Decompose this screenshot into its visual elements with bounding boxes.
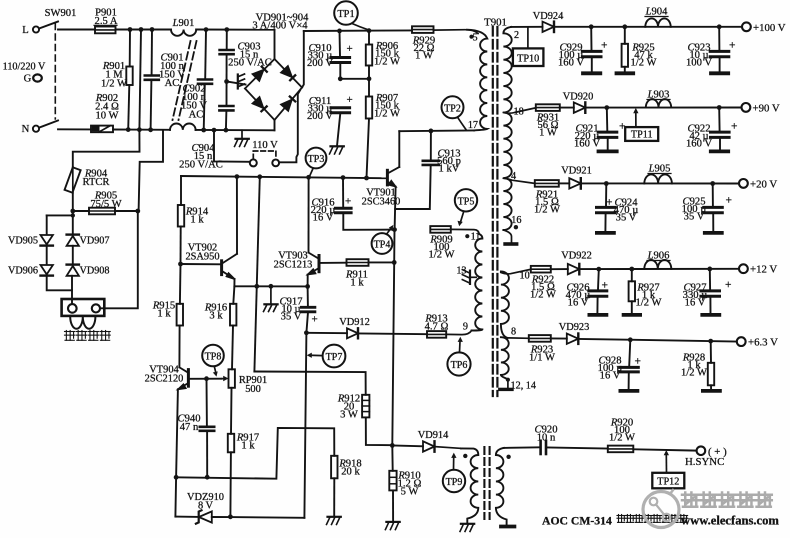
wire bus-to-R912 vertical xyxy=(254,372,365,395)
capacitor C921 label xyxy=(574,124,600,150)
label 110 V xyxy=(252,140,278,151)
terminal N contact xyxy=(33,126,39,132)
node ebus-x257 xyxy=(254,284,259,289)
svg-text:10 W: 10 W xyxy=(95,111,118,122)
switch SW901 gang link (dashed) xyxy=(54,24,56,120)
capacitor C924 xyxy=(597,207,616,212)
wire C928 bottom xyxy=(628,372,630,389)
wire C913 bottom xyxy=(395,165,431,209)
svg-text:N: N xyxy=(22,124,30,135)
plus C917 xyxy=(312,314,318,326)
terminal N xyxy=(22,124,30,135)
wire zener right xyxy=(212,516,231,518)
wire C916 bottom xyxy=(343,213,394,230)
wire VT903 emitter xyxy=(307,275,309,287)
capacitor C913 label xyxy=(437,149,461,175)
svg-text:TP9: TP9 xyxy=(446,477,463,488)
svg-text:VD912: VD912 xyxy=(339,317,370,328)
diode VD908 label xyxy=(80,266,110,277)
node C926 xyxy=(596,267,601,272)
svg-text:+: + xyxy=(635,356,642,368)
transistor VT903 label xyxy=(274,251,313,271)
wire R917 to zener wire xyxy=(229,452,232,517)
svg-text:1/2 W: 1/2 W xyxy=(609,433,635,444)
svg-text:VD921: VD921 xyxy=(561,166,592,177)
diode VD912 xyxy=(347,328,358,338)
inductor L901 bottom coil xyxy=(170,123,196,129)
resistor R920 label xyxy=(609,418,635,444)
node bus-R907 xyxy=(364,176,369,181)
svg-text:1/1 W: 1/1 W xyxy=(529,353,555,364)
transformer T902 core (dashed) xyxy=(484,447,489,519)
bridge edge bottom-left xyxy=(245,89,275,121)
wire C921 top xyxy=(606,108,609,131)
wire R916 top xyxy=(233,286,234,304)
wire C926 bottom xyxy=(596,297,598,313)
wire control bus xyxy=(181,176,387,178)
resistor R921 xyxy=(535,180,559,187)
wire C924 top xyxy=(605,184,607,207)
svg-text:+: + xyxy=(345,196,351,208)
resistor R929 xyxy=(412,26,434,33)
capacitor C922 label xyxy=(686,124,712,150)
node C921 xyxy=(604,105,609,110)
node R911-emitterline xyxy=(392,260,397,265)
capacitor C901 xyxy=(145,76,159,80)
wire VD908 to degauss box xyxy=(71,276,73,304)
svg-text:+12 V: +12 V xyxy=(750,264,777,276)
ground bar R928 xyxy=(703,389,720,393)
diode VD924 label xyxy=(533,11,564,22)
ground bar C928 xyxy=(620,389,637,393)
diode VD921 label xyxy=(561,166,592,177)
pin dot 16 xyxy=(514,225,518,229)
svg-text:L905: L905 xyxy=(648,164,671,175)
svg-text:2SA950: 2SA950 xyxy=(185,252,219,263)
plus C929 xyxy=(601,40,608,52)
resistor R921 label xyxy=(534,190,560,216)
capacitor C904 label xyxy=(179,143,223,171)
T901 secondary upper winding xyxy=(503,27,511,230)
capacitor C929 label xyxy=(558,43,584,69)
capacitor C923 label xyxy=(686,43,712,69)
pin 8 tap wire xyxy=(508,337,529,339)
wire C923 top xyxy=(718,27,720,50)
test point TP7 xyxy=(323,345,346,368)
inductor L904 xyxy=(645,18,670,26)
resistor R913 xyxy=(427,331,446,338)
diode VD904 (bridge bottom-right) xyxy=(281,97,295,111)
svg-text:VD924: VD924 xyxy=(533,11,564,22)
node top-R901 xyxy=(128,27,133,32)
test point TP11 box xyxy=(625,127,658,141)
wire R929 to pin5 xyxy=(434,30,479,34)
node ebus-gnd xyxy=(269,284,274,289)
wire R901 vertical xyxy=(128,30,130,131)
node bot-C903 xyxy=(224,128,229,133)
wire bridge top corner xyxy=(274,30,276,59)
svg-text:+: + xyxy=(726,195,733,207)
label 110/220 V xyxy=(3,62,46,73)
ground bar C925 xyxy=(705,231,722,235)
fuse P901 xyxy=(95,27,116,34)
wire C940 bottom xyxy=(206,431,208,477)
test point TP1 stub xyxy=(352,24,368,30)
wire VD914 left xyxy=(392,444,423,447)
resistor R928 label xyxy=(681,353,707,379)
svg-text:TP2: TP2 xyxy=(444,103,461,114)
wire C911 bottom xyxy=(337,113,340,146)
T901 secondary lower winding xyxy=(501,272,509,380)
degaussing coil box xyxy=(62,299,105,316)
resistor R918 xyxy=(331,456,337,479)
capacitor C902 xyxy=(198,80,212,84)
terminal +12V xyxy=(739,264,748,273)
wire R915 to VT904 collector xyxy=(178,326,180,368)
node VT902 base xyxy=(178,262,183,267)
wire C910/R906 link xyxy=(340,78,369,80)
wire C910 top xyxy=(339,31,342,56)
wire VD905-VD906 xyxy=(46,247,48,264)
svg-text:16 V: 16 V xyxy=(313,213,334,224)
resistor R912 label xyxy=(337,394,360,421)
jumper link (dashed) xyxy=(253,151,276,159)
svg-text:VD905: VD905 xyxy=(8,236,38,247)
wire emitter line down xyxy=(393,230,395,263)
wire VT904 emitter to zener xyxy=(174,477,177,516)
terminal G contact xyxy=(33,74,42,81)
wire C910 bottom xyxy=(339,63,341,79)
wire 110V feed xyxy=(214,130,250,162)
resistor R906 xyxy=(366,45,372,66)
jumper contact right xyxy=(272,160,279,167)
diode VD902 (bridge top-right) xyxy=(281,66,295,80)
svg-text:G: G xyxy=(24,74,32,85)
test point TP7 stub xyxy=(307,353,323,358)
label +6.3 V xyxy=(748,337,778,349)
capacitor C940 label xyxy=(178,414,201,434)
capacitor C925 label xyxy=(682,197,707,223)
svg-text:200 V: 200 V xyxy=(307,58,333,69)
wire C902 top xyxy=(204,30,207,79)
svg-text:+: + xyxy=(312,314,318,326)
svg-text:+100 V: +100 V xyxy=(753,22,786,34)
terminal H.SYNC xyxy=(697,446,706,455)
bridge edge bottom-right xyxy=(275,88,303,121)
svg-text:1 k: 1 k xyxy=(190,215,204,226)
node C923 xyxy=(717,24,722,29)
svg-text:47 n: 47 n xyxy=(180,422,199,433)
node bus-x257 xyxy=(257,174,262,179)
node R906-R907 xyxy=(367,76,372,81)
wire VT904 emitter xyxy=(176,389,178,477)
wire VT903 collector xyxy=(308,177,310,252)
thermistor R904 xyxy=(65,167,81,193)
caption AOC CM-314 xyxy=(542,515,688,528)
svg-text:1/2 W: 1/2 W xyxy=(681,368,707,379)
pin dot 12,14 xyxy=(506,378,510,382)
svg-text:TP3: TP3 xyxy=(308,154,325,165)
capacitor C901 label xyxy=(159,53,185,90)
wire R916 to RP901 xyxy=(232,326,233,370)
wire bottom AC rail right xyxy=(196,129,275,131)
svg-text:16 V: 16 V xyxy=(685,298,706,309)
svg-text:www.elecfans.com: www.elecfans.com xyxy=(681,514,779,528)
pin label 12,14 xyxy=(511,380,536,391)
transistor VT901 label xyxy=(362,188,401,208)
wire degauss feed A xyxy=(73,130,140,167)
wire C926 top xyxy=(597,269,600,289)
wire R922 to VD922 xyxy=(551,268,568,270)
wire bridge right corner up xyxy=(302,31,304,88)
svg-text:2SC2120: 2SC2120 xyxy=(145,374,184,385)
node bot-C902 xyxy=(201,128,206,133)
test point TP3 xyxy=(306,148,327,169)
wire VT904 base xyxy=(188,378,221,380)
wire R907 to bus xyxy=(367,119,370,179)
diode VD912 label xyxy=(339,317,370,328)
svg-text:TP11: TP11 xyxy=(631,130,653,141)
capacitor C904 xyxy=(219,106,233,110)
wire C929 top xyxy=(590,27,592,50)
svg-text:TP12: TP12 xyxy=(657,476,679,487)
resistor R907 xyxy=(366,97,372,119)
diode VD907 xyxy=(67,235,79,246)
svg-text:35 V: 35 V xyxy=(281,312,302,323)
transistor VT901 xyxy=(387,167,399,187)
wire C922 bottom xyxy=(719,138,721,150)
transformer T901 label xyxy=(484,17,507,29)
svg-text:1 k: 1 k xyxy=(350,278,364,289)
svg-text:1 W: 1 W xyxy=(415,51,433,62)
chassis ground at emitter bus xyxy=(264,286,278,311)
terminal +90V xyxy=(742,103,751,112)
wire C904 bottom xyxy=(225,111,228,131)
label +12 V xyxy=(750,264,777,276)
wire degauss right leg xyxy=(100,211,138,308)
transistor VT904 xyxy=(178,367,189,389)
node top-x141 xyxy=(139,27,144,32)
node C913 top xyxy=(429,129,434,134)
wire C903 top xyxy=(226,30,228,50)
thermistor R904 label xyxy=(82,169,110,189)
svg-text:VD923: VD923 xyxy=(559,322,590,333)
resistor R923 label xyxy=(529,345,555,364)
svg-text:16 V: 16 V xyxy=(568,298,589,309)
svg-text:1/2 W: 1/2 W xyxy=(374,109,400,120)
test point TP1 xyxy=(334,1,358,25)
diode VD905 label xyxy=(8,236,38,247)
node bus-C916 xyxy=(341,175,346,180)
wire VT901 collector xyxy=(398,131,400,167)
wire C917 bottom xyxy=(306,312,308,333)
svg-text:250 V/AC: 250 V/AC xyxy=(228,58,272,69)
degaussing coil terminal left xyxy=(68,304,77,313)
pin label 2 xyxy=(514,30,519,41)
svg-text:1 k: 1 k xyxy=(241,441,255,452)
svg-text:TP10: TP10 xyxy=(517,54,539,65)
svg-text:+: + xyxy=(601,40,608,52)
watermark logo circle xyxy=(643,490,679,528)
resistor R925 xyxy=(622,44,628,67)
capacitor C916 label xyxy=(311,198,336,224)
resistor R927 xyxy=(629,281,635,301)
degaussing coil loops xyxy=(70,317,95,329)
resistor R931 xyxy=(536,104,560,111)
svg-text:2SC1213: 2SC1213 xyxy=(274,260,313,271)
wire C928 top xyxy=(629,340,630,366)
node bus-VT903c xyxy=(306,175,311,180)
diode VD923 label xyxy=(559,322,590,333)
capacitor C927 xyxy=(701,291,720,296)
wire collector rail to pin17 xyxy=(399,129,474,132)
svg-text:1/2 W: 1/2 W xyxy=(101,79,127,90)
node top-C902 xyxy=(204,27,209,32)
switch SW901 lever L xyxy=(39,22,58,29)
wire R909 to pin11 xyxy=(451,229,480,234)
svg-text:250 V/AC: 250 V/AC xyxy=(179,160,223,171)
bridge edge top-right xyxy=(275,59,303,88)
svg-text:+90 V: +90 V xyxy=(753,102,780,114)
earth symbol at bridge left xyxy=(238,74,245,89)
label +100 V xyxy=(753,22,786,34)
ground bar R925 xyxy=(617,71,634,75)
svg-text:160 V: 160 V xyxy=(686,139,712,150)
svg-text:1 k: 1 k xyxy=(157,309,171,320)
resistor R910 (wirewound) xyxy=(389,471,396,491)
wire R904 to node xyxy=(72,193,74,234)
diode VD920 xyxy=(574,102,586,112)
wire R913 to pin9 xyxy=(446,331,471,335)
transformer T901 core (dashed) xyxy=(493,27,498,396)
capacitor C925 xyxy=(704,207,723,212)
chassis ground pin13 xyxy=(462,270,470,284)
transformer T902 left winding xyxy=(461,448,478,523)
wire C921 bottom xyxy=(607,138,609,150)
capacitor C911 label xyxy=(307,96,333,122)
diode VD907 label xyxy=(80,236,110,247)
svg-text:35 V: 35 V xyxy=(684,212,705,223)
wire VD905 top xyxy=(46,215,48,233)
ground bar T902 right xyxy=(501,525,514,529)
pin 18 tap wire xyxy=(503,108,535,113)
wire C920 to R920 xyxy=(547,448,608,449)
resistor R905 label xyxy=(90,191,121,211)
svg-text:35 V: 35 V xyxy=(616,213,637,224)
node bot-C901 xyxy=(148,127,153,132)
wire R910 bottom xyxy=(392,490,394,521)
wire C940 top xyxy=(206,379,208,427)
svg-text:8: 8 xyxy=(511,327,516,338)
svg-text:+6.3 V: +6.3 V xyxy=(748,337,778,349)
watermark text xyxy=(681,493,779,528)
wire C901 top xyxy=(151,30,153,76)
wire VD914 to T902 xyxy=(435,447,462,449)
resistor R902 (fusible) xyxy=(91,126,113,133)
capacitor C902 label xyxy=(181,84,207,121)
plus C928 xyxy=(635,356,642,368)
ground bar pin16 xyxy=(505,242,516,246)
wire +12V rail xyxy=(579,268,739,270)
svg-text:9: 9 xyxy=(463,322,468,333)
svg-text:RTCR: RTCR xyxy=(82,177,110,188)
wire DC+ rail xyxy=(304,29,412,32)
potentiometer RP901 label xyxy=(239,375,267,395)
node R905 left xyxy=(70,209,75,214)
node R927 xyxy=(629,267,634,272)
pin label 16 xyxy=(511,215,521,226)
test point TP5 stub xyxy=(458,211,464,226)
wire R914 top xyxy=(180,176,182,205)
test point TP12 box xyxy=(652,473,684,489)
transistor VT904 label xyxy=(145,365,184,385)
svg-text:1/2 W: 1/2 W xyxy=(631,58,657,69)
resistor R922 xyxy=(531,266,551,273)
pin 12,14 exit xyxy=(507,379,509,387)
svg-text:1/2 W: 1/2 W xyxy=(429,250,455,261)
resistor R911 xyxy=(347,259,369,266)
svg-text:VD907: VD907 xyxy=(80,236,110,247)
svg-text:10: 10 xyxy=(520,271,530,282)
svg-text:+: + xyxy=(731,121,738,133)
svg-text:TP1: TP1 xyxy=(337,9,354,20)
svg-text:110 V: 110 V xyxy=(252,140,278,151)
node VD914 wire xyxy=(390,443,395,448)
resistor R916 xyxy=(230,304,236,326)
ground bar pin12-14 xyxy=(500,388,512,391)
resistor R923 xyxy=(529,335,551,342)
svg-text:+20 V: +20 V xyxy=(750,178,777,190)
resistor R901 label xyxy=(101,61,127,90)
capacitor C928 label xyxy=(598,356,623,382)
wire left chain top xyxy=(47,214,73,216)
ground bar C921 xyxy=(599,149,617,153)
svg-text:L904: L904 xyxy=(645,7,669,18)
inductor L903 xyxy=(646,99,671,107)
wire VD912 left xyxy=(306,332,347,334)
T902 polarity dot right xyxy=(506,455,510,459)
resistor R915 label xyxy=(152,301,175,320)
wire R914 to VT902 base xyxy=(180,227,182,265)
wire C901 bottom xyxy=(150,80,153,130)
wire C929 bottom xyxy=(591,57,593,71)
T901 primary lower winding xyxy=(472,234,483,331)
terminal +6.3V xyxy=(737,337,746,346)
inductor L905 label xyxy=(648,164,671,175)
svg-text:1/2 W: 1/2 W xyxy=(374,57,400,68)
wire x257 vertical xyxy=(254,177,259,372)
plus C927 xyxy=(725,279,732,291)
diode VD906 label xyxy=(8,266,38,277)
wire +6.3V rail xyxy=(578,339,736,342)
wire C902 bottom xyxy=(204,84,205,130)
capacitor C926 label xyxy=(566,283,591,309)
svg-text:110/220 V: 110/220 V xyxy=(3,62,46,73)
resistor R929 label xyxy=(412,36,435,62)
resistor R912 (wirewound) xyxy=(362,395,369,418)
capacitor C929 xyxy=(582,51,601,56)
zener VDZ910 label xyxy=(187,492,224,512)
capacitor C903 xyxy=(220,50,234,54)
diode VD923 xyxy=(567,334,579,344)
inductor L901 label xyxy=(172,18,195,29)
svg-text:SW901: SW901 xyxy=(45,8,77,19)
svg-text:TP7: TP7 xyxy=(326,352,343,363)
pin label 9 xyxy=(463,322,468,333)
wire T902 to C920 xyxy=(504,446,540,449)
wire R931 to VD920 xyxy=(560,107,574,109)
label VD901~904 xyxy=(252,13,309,32)
